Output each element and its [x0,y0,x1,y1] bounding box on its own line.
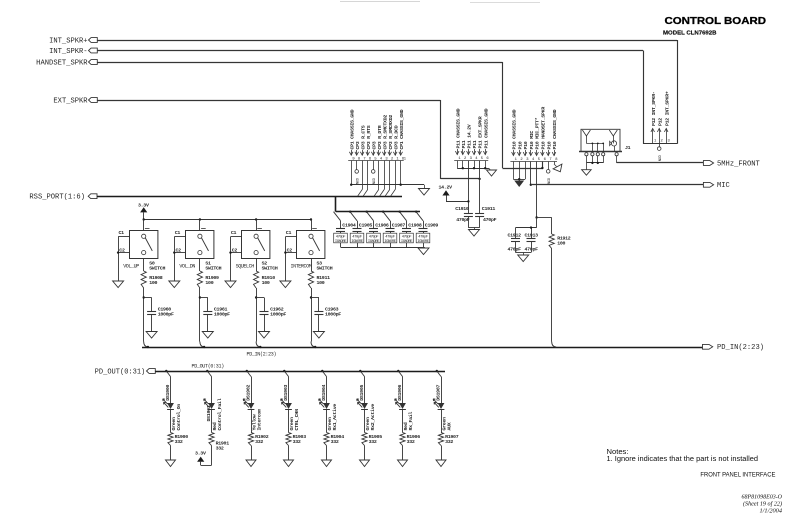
svg-text:HANDSET_SPKR: HANDSET_SPKR [36,59,88,67]
svg-text:(Sheet 19 of 22): (Sheet 19 of 22) [743,500,782,507]
svg-text:CP1 CHASSIS_GND: CP1 CHASSIS_GND [349,109,355,149]
svg-text:INTERCOM: INTERCOM [291,263,312,269]
svg-text:PD_IN(2:23): PD_IN(2:23) [717,344,764,352]
svg-text:P12 INT_SPKR-: P12 INT_SPKR- [651,91,657,126]
svg-text:SWITCH: SWITCH [205,265,221,271]
svg-text:PD_OUT(0:31): PD_OUT(0:31) [95,368,146,376]
svg-text:INT_SPKR-: INT_SPKR- [49,48,88,56]
svg-text:CP3 R_SMCTXD2: CP3 R_SMCTXD2 [382,115,388,150]
svg-text:100: 100 [317,280,325,286]
svg-text:470pF: 470pF [402,235,413,239]
svg-text:3.3V: 3.3V [195,450,206,456]
svg-text:100: 100 [262,280,270,286]
svg-text:CP1 CHASSIS_GND: CP1 CHASSIS_GND [399,109,405,149]
svg-text:5MHz_FRONT: 5MHz_FRONT [717,160,760,168]
svg-text:C1: C1 [286,230,292,236]
svg-text:1000pF: 1000pF [214,312,230,318]
svg-text:Rx1_Active: Rx1_Active [332,404,338,431]
svg-text:100: 100 [557,240,565,246]
svg-text:IGNORE: IGNORE [401,240,413,244]
svg-text:Control_Fail: Control_Fail [217,398,223,430]
svg-text:CONTROL BOARD: CONTROL BOARD [665,16,767,27]
svg-text:470pF: 470pF [456,217,470,223]
svg-text:IGNORE: IGNORE [335,240,347,244]
svg-text:P10 MIC_PTT*: P10 MIC_PTT* [535,117,541,149]
svg-text:P10 MIC: P10 MIC [529,131,535,150]
svg-text:AUX: AUX [446,422,452,430]
svg-text:P12: P12 [657,118,663,126]
svg-text:C1905: C1905 [359,222,373,228]
svg-text:P11: P11 [461,140,467,148]
svg-text:CP3: CP3 [371,141,377,149]
svg-text:470pF: 470pF [483,217,497,223]
svg-text:FRONT PANEL INTERFACE: FRONT PANEL INTERFACE [700,471,776,478]
svg-text:CP3 R_RTS: CP3 R_RTS [366,125,372,149]
svg-text:100: 100 [149,280,157,286]
svg-text:470pF: 470pF [336,235,347,239]
svg-text:C1909: C1909 [425,222,439,228]
svg-text:332: 332 [407,439,415,445]
svg-text:Rx2_Active: Rx2_Active [370,404,376,431]
svg-text:Control_On: Control_On [176,404,182,431]
svg-text:P11 14.2V: P11 14.2V [467,124,473,148]
svg-text:P11 EXT_SPKR: P11 EXT_SPKR [478,116,484,148]
svg-text:1000pF: 1000pF [270,312,286,318]
svg-text:Rx_Fail: Rx_Fail [408,412,414,431]
svg-text:C1911: C1911 [482,206,496,212]
svg-text:1000pF: 1000pF [158,312,174,318]
svg-text:DS1902: DS1902 [245,385,251,401]
svg-text:P10 CHASSIS_GND: P10 CHASSIS_GND [552,109,558,149]
svg-text:C1904: C1904 [342,222,356,228]
svg-text:DS1901: DS1901 [206,405,212,421]
svg-text:VOL_UP: VOL_UP [123,263,139,269]
svg-text:IGNORE: IGNORE [368,240,380,244]
svg-text:INT_SPKR+: INT_SPKR+ [49,37,88,45]
svg-text:P10 CHASSIS_GND: P10 CHASSIS_GND [512,109,518,149]
svg-text:DS1905: DS1905 [359,385,365,401]
svg-text:C1910: C1910 [455,206,469,212]
svg-text:470pF: 470pF [418,235,429,239]
svg-text:CP3 R_DCD: CP3 R_DCD [393,125,399,149]
svg-text:P11: P11 [472,140,478,148]
svg-text:MIC: MIC [717,182,730,190]
svg-text:3.3V: 3.3V [138,202,149,208]
svg-text:332: 332 [293,439,301,445]
svg-text:DS1906: DS1906 [397,385,403,401]
svg-text:C1: C1 [175,230,181,236]
svg-text:J1: J1 [625,145,631,151]
svg-text:C1: C1 [119,230,125,236]
svg-text:DS1900: DS1900 [165,385,171,401]
svg-text:DS1907: DS1907 [435,385,441,401]
svg-text:C1912: C1912 [508,233,522,239]
svg-text:470pF: 470pF [369,235,380,239]
svg-text:470pF: 470pF [385,235,396,239]
svg-text:332: 332 [216,446,224,452]
svg-text:C1: C1 [231,230,237,236]
svg-text:SWITCH: SWITCH [262,265,278,271]
svg-text:SWITCH: SWITCH [149,265,165,271]
svg-text:EXT_SPKR: EXT_SPKR [53,97,88,105]
svg-text:RSS_PORT(1:6): RSS_PORT(1:6) [29,194,85,202]
svg-text:C1913: C1913 [525,233,539,239]
svg-text:CTRL_CHN: CTRL_CHN [294,409,300,431]
svg-text:332: 332 [175,439,183,445]
svg-text:P10 HANDSET_SPKR: P10 HANDSET_SPKR [541,107,547,150]
svg-text:1000pF: 1000pF [325,312,341,318]
svg-text:P10: P10 [546,141,552,149]
svg-text:332: 332 [445,439,453,445]
svg-text:CP3 R_DTR: CP3 R_DTR [377,125,383,149]
svg-text:P12 INT_SPKR+: P12 INT_SPKR+ [664,91,670,126]
svg-text:DS1903: DS1903 [283,385,289,401]
svg-text:DS1904: DS1904 [321,385,327,401]
svg-text:CP3 R_CTS: CP3 R_CTS [360,125,366,149]
svg-text:14.2V: 14.2V [439,184,453,190]
svg-text:C1908: C1908 [408,222,422,228]
svg-text:P11 CHASSIS_GND: P11 CHASSIS_GND [483,108,489,148]
svg-text:1. Ignore indicates that the p: 1. Ignore indicates that the part is not… [607,454,759,463]
svg-text:100: 100 [205,280,213,286]
svg-text:68P81098E03-O: 68P81098E03-O [742,493,783,500]
svg-text:CP3 R_SMCRXD2: CP3 R_SMCRXD2 [388,115,394,150]
svg-text:Intercom: Intercom [256,409,262,431]
svg-text:P10: P10 [517,141,523,149]
svg-text:1/1/2004: 1/1/2004 [760,507,783,514]
svg-text:P10: P10 [523,141,529,149]
svg-text:332: 332 [369,439,377,445]
svg-text:PD_OUT(0:31): PD_OUT(0:31) [192,364,225,370]
svg-text:VOL_DN: VOL_DN [179,263,195,269]
svg-text:P11 CHASSIS_GND: P11 CHASSIS_GND [455,108,461,148]
svg-text:332: 332 [255,439,263,445]
svg-text:CP3: CP3 [355,141,361,149]
svg-text:7: 7 [363,158,365,162]
svg-text:SQUELCH: SQUELCH [236,263,255,269]
svg-text:C1907: C1907 [392,222,406,228]
svg-text:332: 332 [331,439,339,445]
svg-text:PD_IN(2:23): PD_IN(2:23) [247,351,277,357]
svg-text:MODEL CLN7692B: MODEL CLN7692B [663,30,717,36]
svg-text:SWITCH: SWITCH [317,265,333,271]
svg-text:470pF: 470pF [352,235,363,239]
svg-text:470pF: 470pF [508,246,522,252]
svg-text:C1906: C1906 [375,222,389,228]
